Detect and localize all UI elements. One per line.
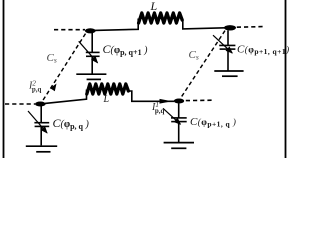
svg-text:L: L xyxy=(150,0,158,13)
capacitor Cs left (dashed diagonal) xyxy=(43,34,86,101)
svg-text:C(φp+1, q ): C(φp+1, q ) xyxy=(190,116,236,129)
ground (top-left) xyxy=(76,74,106,79)
current arrow I2 p,q xyxy=(50,84,56,92)
capacitor C(phi p,q) xyxy=(28,106,49,145)
ground (bottom-right) xyxy=(164,143,194,149)
node phi(p+1,q) xyxy=(174,99,184,104)
ground (bottom-left) xyxy=(26,146,57,152)
capacitor Cs right (dashed diagonal) xyxy=(181,31,225,98)
svg-text:Cs: Cs xyxy=(189,49,199,62)
svg-text:C(φp, q ): C(φp, q ) xyxy=(53,116,90,131)
wire: inductor to right node (top) xyxy=(183,20,225,29)
svg-text:Cs: Cs xyxy=(47,52,57,65)
capacitor C(phi p,q+1) xyxy=(79,33,100,74)
node phi(p,q) xyxy=(35,102,46,107)
wire: top-right dashed stub xyxy=(237,26,263,29)
svg-text:C(φp+1, q+1): C(φp+1, q+1) xyxy=(237,43,290,56)
wire: node to inductor L (top) xyxy=(94,19,138,31)
ground (top-right) xyxy=(214,71,243,76)
wire: node to inductor L (bottom) xyxy=(45,90,87,104)
capacitor C(phi p+1,q) xyxy=(163,103,187,142)
wire: bottom-left dashed stub xyxy=(5,103,35,105)
inductor L (top) xyxy=(139,13,183,23)
capacitor C(phi p+1,q+1) xyxy=(213,31,235,71)
svg-text:I2p,q: I2p,q xyxy=(28,79,41,93)
svg-text:C(φp, q+1 ): C(φp, q+1 ) xyxy=(103,42,149,57)
wire: bottom-right dashed stub xyxy=(186,99,214,101)
node phi(p+1,q+1) xyxy=(224,25,236,30)
border frame right xyxy=(285,0,287,158)
inductor L (bottom) xyxy=(87,84,129,94)
wire: top-left dashed stub xyxy=(54,29,85,31)
border frame left xyxy=(3,0,5,158)
node phi(p,q+1) xyxy=(85,28,96,33)
current arrow I1 p,q on wire xyxy=(160,99,173,104)
svg-text:L: L xyxy=(103,94,110,105)
wire: inductor to right node (bottom) xyxy=(129,91,174,101)
